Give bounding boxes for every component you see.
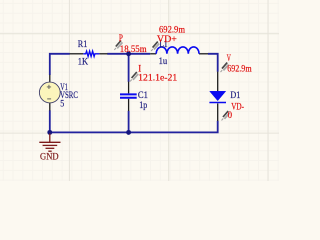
svg-text:C1: C1 bbox=[138, 91, 148, 101]
wire top-left corner from V1 up to R1 bbox=[50, 54, 70, 75]
V1 minus mark bbox=[47, 98, 51, 100]
diode D1 triangle bbox=[210, 91, 226, 100]
grid major bbox=[0, 0, 279, 181]
svg-text:692.9m: 692.9m bbox=[159, 25, 186, 35]
diode D1 cathode bar bbox=[209, 102, 226, 104]
svg-text:692.9m: 692.9m bbox=[227, 65, 252, 75]
wire capacitor branch top bbox=[128, 54, 130, 82]
svg-text:121.1e-21: 121.1e-21 bbox=[138, 74, 177, 84]
junction node bottom cap bbox=[126, 130, 131, 135]
resistor R1 pins bbox=[70, 53, 108, 55]
svg-text:P: P bbox=[119, 34, 123, 44]
wire R1 right to junction P bbox=[107, 53, 128, 55]
svg-text:1u: 1u bbox=[159, 57, 168, 67]
probe VD- pencil bbox=[222, 111, 230, 120]
diode D1 pins bbox=[217, 72, 219, 121]
svg-text:18.55m: 18.55m bbox=[120, 45, 147, 55]
svg-text:1p: 1p bbox=[139, 101, 147, 111]
capacitor C1 plates bbox=[120, 94, 137, 97]
probe V pencil bbox=[221, 63, 229, 72]
svg-text:5: 5 bbox=[60, 100, 64, 110]
sheet background bbox=[0, 0, 279, 181]
wire capacitor branch bottom bbox=[128, 111, 130, 133]
junction node ground bbox=[47, 130, 52, 135]
svg-text:V: V bbox=[227, 54, 231, 64]
wire inductor right + down to diode bbox=[208, 54, 218, 72]
probe P pencil bbox=[114, 41, 122, 50]
probe VD+ pencil bbox=[151, 42, 159, 51]
svg-text:VD-: VD- bbox=[231, 102, 244, 112]
voltage source V1 pins bbox=[49, 75, 51, 111]
V1 plus mark bbox=[47, 85, 51, 89]
ground GND symbol bbox=[39, 134, 60, 152]
capacitor C1 pins bbox=[128, 82, 130, 111]
wire V1 bottom to ground node bbox=[49, 110, 51, 132]
svg-text:1K: 1K bbox=[78, 57, 88, 67]
junction node P (wire to cap branch) bbox=[126, 51, 131, 56]
svg-text:GND: GND bbox=[40, 153, 59, 163]
wire bottom return bbox=[50, 121, 218, 133]
svg-text:VD+: VD+ bbox=[157, 35, 177, 45]
svg-text:R1: R1 bbox=[78, 40, 88, 50]
inductor L1 pins bbox=[150, 53, 208, 55]
probe I pencil bbox=[130, 72, 138, 81]
svg-text:0: 0 bbox=[228, 111, 233, 121]
inductor L1 body bbox=[156, 47, 199, 54]
grid minor bbox=[0, 0, 279, 181]
resistor R1 body bbox=[83, 51, 99, 56]
voltage source V1 circle bbox=[39, 82, 60, 103]
svg-text:D1: D1 bbox=[230, 91, 240, 101]
wire junction P to inductor bbox=[129, 53, 151, 55]
